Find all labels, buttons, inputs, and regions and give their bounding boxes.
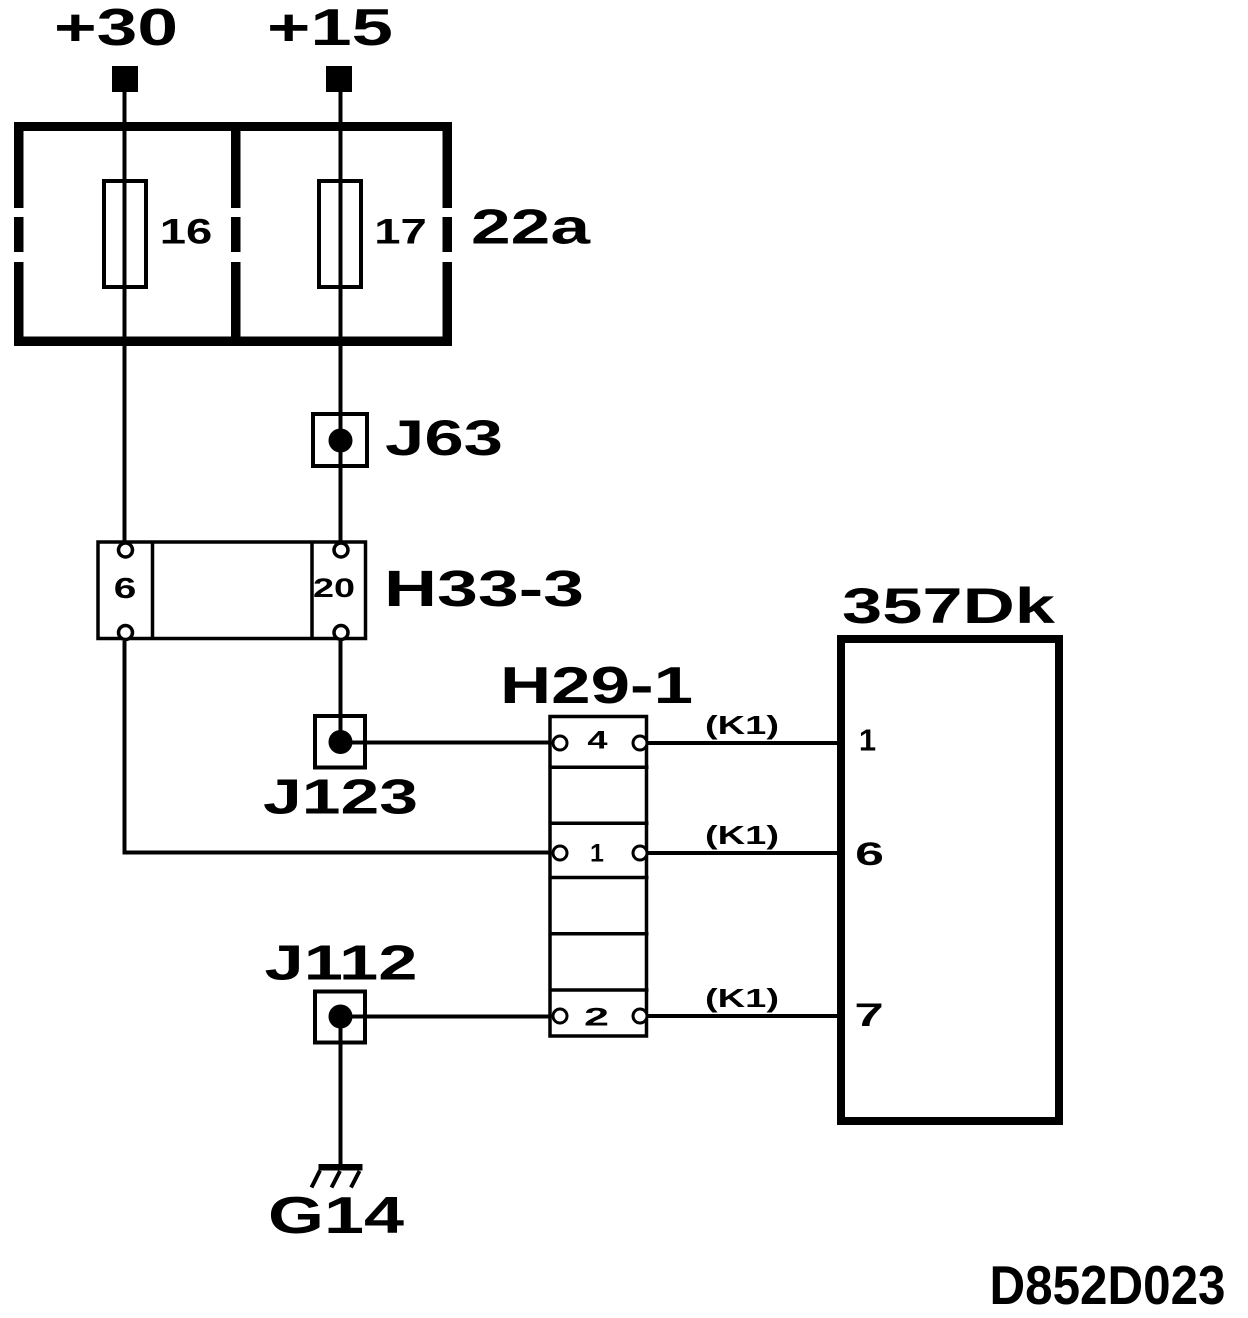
svg-text:J63: J63	[385, 410, 503, 466]
ground symbol G14	[312, 1164, 363, 1188]
svg-text:J112: J112	[265, 937, 418, 991]
svg-text:J123: J123	[263, 771, 418, 825]
terminal square +15	[326, 66, 352, 92]
connector H33-3 body	[98, 542, 366, 639]
svg-text:20: 20	[313, 572, 355, 602]
H33-3 pin 6 bottom circle	[119, 626, 133, 640]
wire H33-3 pin 20 down to J123	[339, 641, 343, 742]
svg-text:22a: 22a	[471, 201, 591, 255]
svg-text:6: 6	[855, 837, 884, 873]
junction J63	[313, 414, 367, 466]
H29-1 pin 1 circles	[553, 846, 567, 860]
wire +30 vertical from terminal through fusebox to H33-3 pin 6	[123, 92, 127, 545]
connector H29-1 body	[550, 717, 647, 1037]
junction J112	[315, 992, 365, 1043]
svg-text:D852D023: D852D023	[990, 1254, 1226, 1316]
svg-text:H29-1: H29-1	[500, 657, 693, 715]
fuse 17 body	[319, 181, 361, 287]
svg-text:7: 7	[854, 997, 883, 1033]
H29-1 pin 4 circles	[553, 736, 567, 750]
svg-text:357Dk: 357Dk	[842, 578, 1055, 634]
svg-text:4: 4	[587, 726, 608, 754]
svg-text:1: 1	[859, 723, 876, 758]
wire J112 to H29-1 pin 2	[341, 1015, 554, 1019]
svg-text:G14: G14	[268, 1187, 404, 1245]
wire J112 down to ground G14	[339, 1017, 343, 1168]
svg-text:1: 1	[590, 840, 604, 868]
H33-3 pin 20 top circle	[334, 543, 348, 557]
wire H29-1 pin 4 to 357Dk pin 1	[648, 741, 842, 745]
wire J123 to H29-1 pin 4	[341, 741, 554, 745]
H33-3 pin 20 bottom circle	[334, 626, 348, 640]
terminal square +30	[112, 66, 138, 92]
svg-text:2: 2	[584, 1003, 609, 1031]
wire H29-1 pin 1 to 357Dk pin 6	[648, 851, 842, 855]
control unit 357Dk body	[841, 639, 1059, 1121]
svg-text:(K1): (K1)	[705, 710, 779, 740]
svg-text:H33-3: H33-3	[384, 560, 584, 617]
fuse 16 body	[104, 181, 146, 287]
wire +15 vertical from terminal through fusebox and J63 to H33-3 pin 20	[339, 92, 343, 545]
svg-text:+15: +15	[267, 0, 393, 57]
svg-text:16: 16	[160, 212, 213, 252]
svg-text:17: 17	[374, 212, 427, 252]
junction J123	[315, 716, 365, 768]
H33-3 pin 6 top circle	[119, 543, 133, 557]
svg-text:(K1): (K1)	[705, 983, 779, 1013]
fuse box 22a outline (dashed)	[14, 122, 452, 346]
wire H29-1 pin 2 to 357Dk pin 7	[648, 1014, 842, 1018]
wire H33-3 pin 6 down then right to H29-1 pin 1	[125, 641, 554, 853]
svg-text:+30: +30	[54, 0, 178, 57]
H29-1 pin 2 circles	[553, 1009, 567, 1023]
svg-text:(K1): (K1)	[705, 820, 779, 850]
svg-text:6: 6	[114, 573, 137, 605]
